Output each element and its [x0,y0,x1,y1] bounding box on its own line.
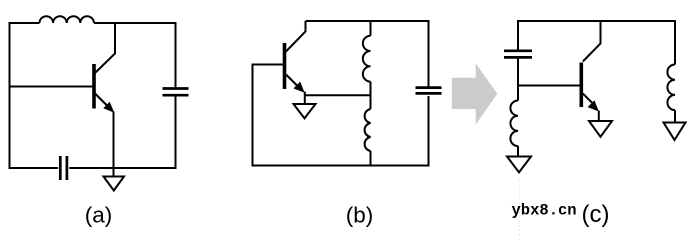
svg-text:(b): (b) [346,203,374,228]
wire: (a) emitter vertical [113,112,115,178]
transistor Q1 (a) collector lead [95,23,115,73]
capacitor C3 (b) plates [416,88,442,94]
wire: (c) left coil bottom stub [517,146,519,157]
wire: (a) left vertical [9,22,11,169]
inductor L5 (c) right coil [667,65,675,111]
watermark faint dotted column [519,180,521,240]
wire: (b) right vertical upper [428,20,430,87]
ground (b) [294,104,316,118]
transistor Q3 (c) emitter lead [583,94,592,103]
wire: (b) tap wire to coil [305,94,371,96]
wire: (c) left vertical lower [517,59,519,101]
transistor Q1 (a) emitter lead [95,94,108,107]
inductor L3 (b) lower coil [365,109,371,151]
inductor L2 (b) upper coil [363,36,371,82]
svg-text:(c): (c) [582,201,610,228]
wire: (a) bottom-left segment [10,167,59,169]
inductor L4 (c) left coil [510,101,518,147]
wire: (c) right vertical upper [674,20,676,65]
wire: (b) right vertical lower [428,96,430,167]
wire: (c) right coil bottom stub [674,110,676,123]
wire: (b) bottom wire [253,165,429,167]
wire: (c) base wire [518,85,580,87]
wire: (a) right vertical lower [175,97,177,170]
transistor Q1 (a) emitter arrow [103,102,114,113]
wire: (b) coil middle segment [370,82,372,109]
wire: (a) top-right segment [94,22,176,24]
wire: (b) coil bottom stub [370,151,372,166]
transistor Q2 (b) emitter arrow [293,82,304,93]
svg-text:ybx8.cn: ybx8.cn [512,202,577,220]
capacitor C2 (a) right plates [163,89,189,96]
ground (a) [104,177,125,191]
ground (c) right [664,123,686,141]
transistor Q2 (b) emitter lead [286,75,298,87]
transistor Q2 (b) base bar [283,43,287,89]
transistor Q3 (c) collector lead [583,21,601,62]
svg-text:(a): (a) [85,203,113,228]
wire: (b) emitter node vertical [304,92,306,105]
transistor Q2 (b) collector lead [286,21,306,52]
wire: (b) top wire [306,20,429,22]
wire: (c) emitter vertical [598,111,600,122]
wire: (a) right vertical upper [175,22,177,87]
wire: (c) top wire [518,20,675,22]
wire: (a) top-left segment [10,22,40,24]
ground (c) left [507,157,531,173]
transistor Q3 (c) emitter arrow [588,100,599,111]
capacitor C1 (a) bottom plates [60,156,67,180]
wire: (a) base wire [10,86,93,88]
wire: (b) base wire [253,64,284,66]
wire: (b) coil top stub [370,20,372,36]
wire: (a) bottom-right segment [69,167,175,169]
inductor L1 (a) top, 4 loops [40,16,94,23]
ground (c) emitter [589,121,612,137]
capacitor C4 (c) plates [504,51,532,58]
wire: (b) left vertical [252,64,254,167]
wire: (c) left vertical upper [517,20,519,50]
transistor Q1 (a) base bar [92,64,96,109]
transistor Q3 (c) base bar [579,63,583,108]
